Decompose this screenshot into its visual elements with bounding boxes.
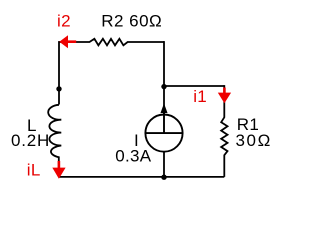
- current arrow i1 (red, pointing down): [223, 88, 226, 94]
- wire middle vertical upper: [163, 41, 165, 115]
- current arrow iL (red, pointing down): [58, 161, 61, 168]
- svg-text:iL: iL: [27, 161, 41, 180]
- inductor L coil: [48, 105, 61, 157]
- wire bottom: [58, 176, 224, 178]
- current arrow i2 (red, pointing left): [66, 40, 76, 43]
- node dot left: [56, 86, 61, 91]
- svg-text:30Ω: 30Ω: [236, 131, 272, 150]
- svg-text:i1: i1: [193, 87, 207, 106]
- svg-text:0.3A: 0.3A: [115, 147, 152, 166]
- wire top with resistor R2 zigzag: [59, 39, 164, 46]
- wire i1 branch horizontal: [164, 85, 224, 87]
- wire right vertical with resistor R1 zigzag: [221, 85, 227, 177]
- node dot middle bottom: [161, 175, 166, 180]
- svg-text:R2 60Ω: R2 60Ω: [101, 12, 162, 31]
- wire middle bottom lead: [163, 152, 165, 177]
- current source arrow: [163, 112, 165, 133]
- node dot middle top: [161, 84, 166, 89]
- svg-text:0.2H: 0.2H: [11, 131, 50, 150]
- wire left bottom lead: [58, 156, 60, 177]
- current source I circle: [145, 115, 182, 152]
- svg-text:i2: i2: [57, 11, 71, 30]
- wire left vertical (top-left corner down to inductor): [58, 41, 60, 104]
- current source chord: [145, 132, 182, 134]
